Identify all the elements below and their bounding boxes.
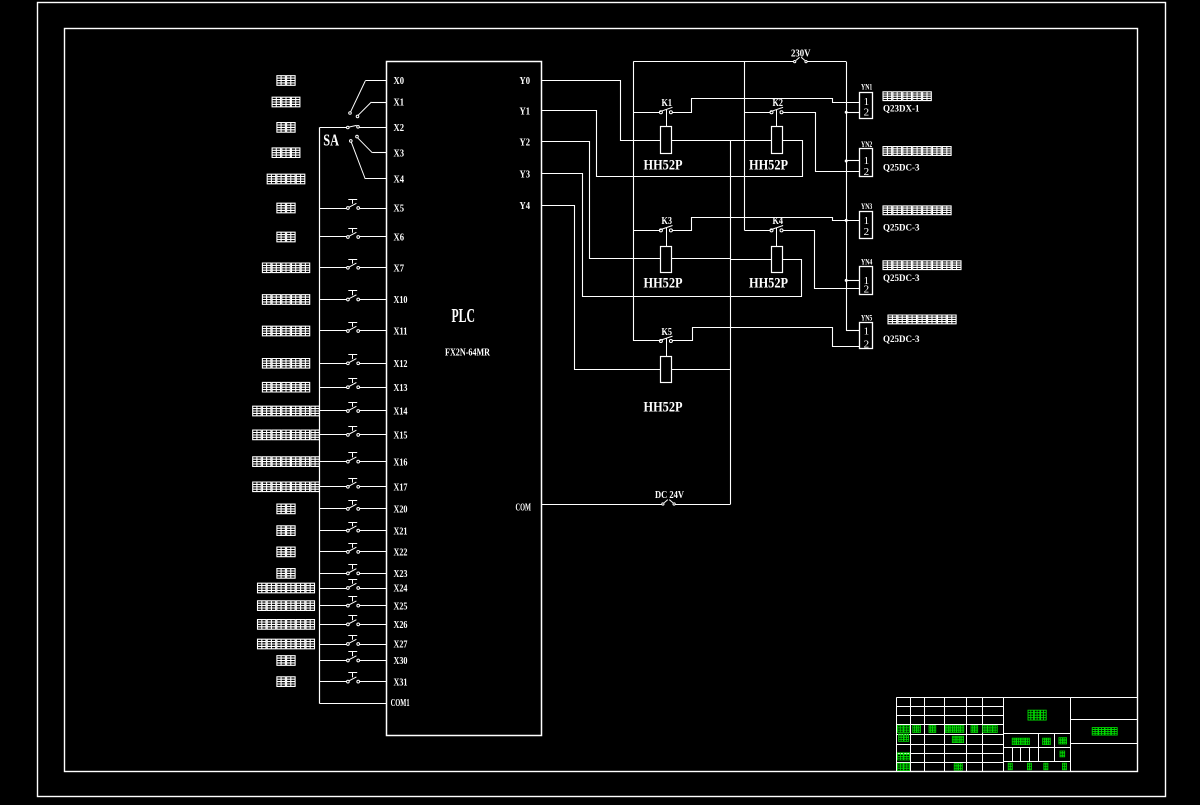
svg-text:2: 2 <box>864 166 870 178</box>
svg-text:X3: X3 <box>394 148 405 159</box>
svg-text:FX2N-64MR: FX2N-64MR <box>445 348 490 359</box>
svg-text:2: 2 <box>864 339 870 351</box>
svg-text:X23: X23 <box>394 569 408 580</box>
svg-text:X21: X21 <box>394 526 408 537</box>
svg-text:X0: X0 <box>394 76 405 87</box>
svg-text:YN5: YN5 <box>861 313 872 323</box>
svg-text:X13: X13 <box>394 383 408 394</box>
svg-text:230V: 230V <box>791 48 811 59</box>
svg-text:1: 1 <box>864 326 870 338</box>
svg-text:K4: K4 <box>773 216 784 227</box>
svg-text:Q25DC-3: Q25DC-3 <box>883 223 920 234</box>
svg-text:SA: SA <box>323 131 339 150</box>
svg-text:HH52P: HH52P <box>749 276 788 292</box>
svg-text:X2: X2 <box>394 123 405 134</box>
svg-text:Q25DC-3: Q25DC-3 <box>883 334 920 345</box>
svg-text:X12: X12 <box>394 359 408 370</box>
svg-text:X31: X31 <box>394 677 408 688</box>
svg-text:X17: X17 <box>394 483 408 494</box>
svg-text:YN3: YN3 <box>861 201 872 211</box>
svg-text:X11: X11 <box>394 327 408 338</box>
svg-text:X4: X4 <box>394 175 405 186</box>
svg-text:HH52P: HH52P <box>749 157 788 173</box>
svg-text:DC 24V: DC 24V <box>655 490 685 501</box>
svg-text:2: 2 <box>864 107 870 119</box>
svg-text:X15: X15 <box>394 431 408 442</box>
svg-text:Q25DC-3: Q25DC-3 <box>883 273 920 284</box>
svg-text:2: 2 <box>864 226 870 238</box>
svg-text:Y4: Y4 <box>520 201 531 212</box>
svg-text:X7: X7 <box>394 264 405 275</box>
svg-text:COM: COM <box>516 503 532 514</box>
svg-text:Y2: Y2 <box>520 137 531 148</box>
svg-text:X22: X22 <box>394 548 408 559</box>
svg-text:K3: K3 <box>662 216 673 227</box>
svg-text:HH52P: HH52P <box>644 157 683 173</box>
svg-text:PLC: PLC <box>452 305 476 327</box>
svg-text:Q25DC-3: Q25DC-3 <box>883 163 920 174</box>
svg-text:HH52P: HH52P <box>644 276 683 292</box>
svg-text:YN2: YN2 <box>861 139 872 149</box>
svg-text:X27: X27 <box>394 640 408 651</box>
svg-text:2: 2 <box>864 284 870 296</box>
svg-text:X10: X10 <box>394 295 408 306</box>
svg-text:X1: X1 <box>394 98 405 109</box>
svg-text:K1: K1 <box>662 98 673 109</box>
svg-text:X24: X24 <box>394 584 409 595</box>
svg-text:X25: X25 <box>394 601 408 612</box>
svg-text:HH52P: HH52P <box>644 400 683 416</box>
svg-text:Y3: Y3 <box>520 169 531 180</box>
svg-text:X20: X20 <box>394 505 408 516</box>
svg-text:X26: X26 <box>394 620 408 631</box>
svg-text:K2: K2 <box>773 98 784 109</box>
svg-text:YN4: YN4 <box>861 256 873 266</box>
svg-text:Y1: Y1 <box>520 106 531 117</box>
svg-text:X30: X30 <box>394 656 408 667</box>
svg-text:Q23DX-1: Q23DX-1 <box>883 103 920 114</box>
svg-text:Y0: Y0 <box>520 76 531 87</box>
svg-text:YN1: YN1 <box>861 81 872 91</box>
svg-text:X5: X5 <box>394 204 405 215</box>
svg-text:K5: K5 <box>662 327 673 338</box>
svg-text:X6: X6 <box>394 233 405 244</box>
svg-text:COM1: COM1 <box>391 698 410 709</box>
svg-text:X14: X14 <box>394 407 409 418</box>
svg-text:X16: X16 <box>394 457 408 468</box>
